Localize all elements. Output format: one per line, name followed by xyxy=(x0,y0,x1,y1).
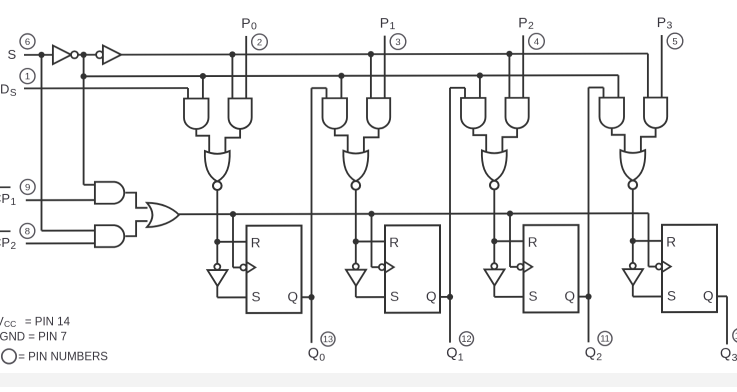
svg-text:= PIN 14: = PIN 14 xyxy=(25,316,71,328)
svg-text:R: R xyxy=(666,234,676,249)
svg-text:Q3: Q3 xyxy=(720,346,737,364)
svg-text:Q: Q xyxy=(288,289,299,304)
svg-text:1: 1 xyxy=(25,71,30,82)
svg-text:= PIN NUMBERS: = PIN NUMBERS xyxy=(18,351,108,363)
svg-text:Q1: Q1 xyxy=(446,345,464,363)
svg-text:R: R xyxy=(389,235,399,250)
svg-text:P1: P1 xyxy=(380,15,396,33)
svg-text:Q: Q xyxy=(426,289,437,304)
svg-text:S: S xyxy=(390,289,399,304)
svg-text:GND = PIN 7: GND = PIN 7 xyxy=(0,331,67,343)
svg-text:R: R xyxy=(528,235,538,250)
svg-text:CP1: CP1 xyxy=(0,191,17,208)
svg-text:8: 8 xyxy=(25,226,30,237)
svg-text:P0: P0 xyxy=(241,15,257,33)
svg-text:S: S xyxy=(667,289,676,304)
svg-text:P2: P2 xyxy=(518,14,534,32)
svg-text:3: 3 xyxy=(395,37,400,48)
svg-text:Q0: Q0 xyxy=(308,346,326,364)
svg-text:11: 11 xyxy=(600,334,609,344)
svg-text:VCC: VCC xyxy=(0,316,16,329)
svg-text:Q2: Q2 xyxy=(585,345,603,363)
svg-text:S: S xyxy=(529,289,538,304)
svg-text:R: R xyxy=(251,235,261,250)
svg-text:Q: Q xyxy=(565,289,576,304)
svg-text:6: 6 xyxy=(25,37,30,48)
svg-text:Q: Q xyxy=(703,288,714,303)
svg-text:DS: DS xyxy=(0,81,17,98)
svg-text:P3: P3 xyxy=(657,14,673,32)
svg-text:2: 2 xyxy=(257,37,262,48)
svg-text:S: S xyxy=(8,47,17,62)
svg-text:CP2: CP2 xyxy=(0,235,17,252)
svg-text:5: 5 xyxy=(672,36,677,47)
svg-text:13: 13 xyxy=(323,334,333,344)
svg-text:9: 9 xyxy=(25,182,30,193)
svg-text:12: 12 xyxy=(461,334,471,344)
svg-text:S: S xyxy=(252,289,261,304)
svg-text:4: 4 xyxy=(534,37,539,48)
